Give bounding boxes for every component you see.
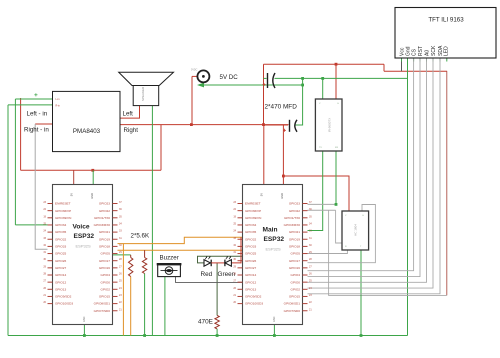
svg-text:SPEAKER: SPEAKER <box>141 86 145 101</box>
junction <box>91 169 94 172</box>
junction <box>335 63 338 66</box>
svg-text:G: G <box>337 103 339 105</box>
wire buzzer right to Main <box>176 277 243 283</box>
speaker <box>119 72 174 105</box>
wire TFT RST to Main <box>308 58 421 277</box>
svg-text:GPIO19: GPIO19 <box>99 237 110 241</box>
wire orange Voice to Main A <box>118 237 243 243</box>
svg-text:Left: Left <box>123 111 134 118</box>
svg-text:GPIO18: GPIO18 <box>99 245 110 249</box>
junction <box>335 203 338 206</box>
svg-text:GPIO8/SD1: GPIO8/SD1 <box>284 302 301 306</box>
svg-text:GPIO7/SD0: GPIO7/SD0 <box>94 309 111 313</box>
svg-text:GPIO5: GPIO5 <box>291 252 301 256</box>
wire cap C1 left stub <box>264 77 267 79</box>
svg-text:5V DC: 5V DC <box>220 74 239 81</box>
svg-text:ESP32S: ESP32S <box>266 247 281 252</box>
svg-text:5V: 5V <box>70 193 74 196</box>
svg-text:GPIO7/SD0: GPIO7/SD0 <box>284 309 301 313</box>
wire red vertical 5V <box>263 64 265 124</box>
svg-text:Buzzer: Buzzer <box>160 254 179 261</box>
wire red loop left riser <box>20 98 22 170</box>
wire Voice 3V3 pin <box>73 170 75 184</box>
svg-text:GPIO27: GPIO27 <box>55 266 66 270</box>
svg-text:GPIO0: GPIO0 <box>101 280 111 284</box>
svg-text:GPIO21: GPIO21 <box>99 230 110 234</box>
junction <box>282 175 285 178</box>
wire to Voice pin <box>15 224 47 226</box>
svg-text:GPIO12: GPIO12 <box>245 280 256 284</box>
label Right out <box>124 127 139 134</box>
microcontroller U5 Voice ESP32 <box>43 185 122 325</box>
wire Main top pin drop A <box>263 125 265 185</box>
wire R2 top stub <box>144 250 146 257</box>
svg-text:GPIO34: GPIO34 <box>55 223 66 227</box>
svg-text:5VDC: 5VDC <box>191 69 198 72</box>
svg-text:GPIO26: GPIO26 <box>245 259 256 263</box>
wire gray U4 riser <box>336 210 342 243</box>
svg-text:5V: 5V <box>260 193 264 196</box>
svg-text:GPIO13: GPIO13 <box>245 287 256 291</box>
wire orange drop to ground <box>122 244 124 336</box>
label Right-in <box>24 127 49 134</box>
capacitor C1 <box>263 73 276 88</box>
wire U3 TX to Main <box>308 151 323 231</box>
svg-text:GPIO33: GPIO33 <box>55 245 66 249</box>
svg-text:GPIO15: GPIO15 <box>99 295 110 299</box>
label 5V DC <box>220 74 239 81</box>
wire U4 top right loop <box>308 205 376 263</box>
label 470E <box>198 319 213 326</box>
wire R1 top stub <box>130 255 132 258</box>
wire gray long link <box>329 210 447 295</box>
label 2*5.6K <box>131 233 150 240</box>
svg-text:EN/RESET: EN/RESET <box>245 202 261 206</box>
label Green <box>218 271 236 278</box>
wire red drop to module U3 pin <box>335 64 337 99</box>
wire R2 bottom <box>144 274 146 336</box>
junction <box>301 84 304 87</box>
svg-text:Main: Main <box>263 227 278 234</box>
wire red drop from TFT LED <box>446 71 448 295</box>
svg-text:GPIO17: GPIO17 <box>99 259 110 263</box>
svg-text:LED: LED <box>444 46 450 56</box>
svg-text:GPIO1/TX0: GPIO1/TX0 <box>284 216 300 220</box>
svg-text:GND: GND <box>273 316 276 322</box>
svg-text:GPIO39/VN: GPIO39/VN <box>245 216 261 220</box>
svg-text:GPIO26: GPIO26 <box>55 259 66 263</box>
svg-text:GPIO16: GPIO16 <box>289 266 300 270</box>
svg-text:R-in: R-in <box>56 105 61 108</box>
svg-text:GPIO10/SD3: GPIO10/SD3 <box>55 302 73 306</box>
wire jack stub <box>192 75 197 77</box>
wire TFT CS to Main <box>308 58 414 271</box>
wire PAM Left out <box>120 106 140 119</box>
wire red rail step <box>383 64 385 71</box>
wire buzzer left drop <box>164 277 166 336</box>
wire 5V red rail to TFT LED <box>384 70 447 72</box>
svg-text:GPIO8/SD1: GPIO8/SD1 <box>94 302 111 306</box>
capacitor C2 <box>283 120 297 132</box>
svg-text:GPIO10/SD3: GPIO10/SD3 <box>245 302 263 306</box>
junction <box>262 123 265 126</box>
wire U4 pin drop to ground <box>360 250 362 336</box>
svg-text:EN/RESET: EN/RESET <box>55 202 71 206</box>
svg-text:ESP32S: ESP32S <box>76 244 91 249</box>
svg-text:GPIO27: GPIO27 <box>245 266 256 270</box>
wire TFT Gnd drop <box>407 58 409 336</box>
wire TFT SDA to Main <box>308 58 441 294</box>
wire TFT SCK to Main <box>308 58 434 288</box>
svg-text:GPIO18: GPIO18 <box>289 245 300 249</box>
svg-text:GPIO15: GPIO15 <box>289 295 300 299</box>
svg-text:GPIO36/VP: GPIO36/VP <box>245 209 261 213</box>
svg-text:A0: A0 <box>424 50 430 56</box>
wire R3 bottom <box>216 329 218 336</box>
wire U3 RX to Main <box>308 203 337 205</box>
wire orange Voice to Main B <box>118 249 243 251</box>
label 2*470 MFD <box>265 104 298 111</box>
wire Main bottom pin <box>273 325 275 336</box>
wire green upper rail <box>275 77 408 79</box>
svg-text:Right - in: Right - in <box>24 127 49 134</box>
display TFT ILI 9163 <box>395 8 496 59</box>
svg-text:RX: RX <box>335 147 339 149</box>
svg-text:GPIO22: GPIO22 <box>99 209 110 213</box>
svg-text:GND: GND <box>90 193 94 199</box>
svg-text:GPIO14: GPIO14 <box>55 273 66 277</box>
junction <box>273 334 276 337</box>
wire Left-in lower <box>8 104 53 106</box>
svg-text:Voice: Voice <box>73 224 90 231</box>
wire U3 RX drop <box>335 151 337 204</box>
svg-text:ESP32: ESP32 <box>74 233 95 240</box>
wire 5V horizontal rail <box>120 124 289 126</box>
label Left-in <box>27 111 48 118</box>
plus mark <box>34 93 37 96</box>
svg-text:Gnd: Gnd <box>405 46 411 56</box>
TFT pin stubs <box>402 58 447 62</box>
svg-text:GND: GND <box>280 193 284 199</box>
svg-text:470E: 470E <box>198 319 213 326</box>
amplifier PMA8403 <box>53 91 121 151</box>
junction <box>321 77 324 80</box>
svg-text:GPIO32: GPIO32 <box>245 237 256 241</box>
wire speaker minus drop <box>151 106 153 336</box>
svg-text:G: G <box>362 215 364 217</box>
wire jack drop <box>191 76 193 124</box>
svg-text:TFT ILI 9163: TFT ILI 9163 <box>428 17 464 24</box>
svg-text:GPIO2: GPIO2 <box>291 287 301 291</box>
svg-text:GPIO25: GPIO25 <box>245 252 256 256</box>
wire R1 feed <box>113 254 131 256</box>
svg-text:GPIO2: GPIO2 <box>101 287 111 291</box>
svg-text:GPIO13: GPIO13 <box>55 287 66 291</box>
wire Green LED riser <box>232 237 241 263</box>
wire green drop to C2 <box>296 78 303 125</box>
wire green drop to module U3 <box>322 78 324 99</box>
wire ground left rail <box>7 105 9 336</box>
wire red to module U4 <box>283 176 349 211</box>
svg-text:GPIO25: GPIO25 <box>55 252 66 256</box>
wire red loop bottom <box>21 169 161 171</box>
wire jack green rail <box>199 84 303 86</box>
svg-text:ESP32: ESP32 <box>264 236 285 243</box>
LED D2 Green <box>225 256 232 266</box>
wire U4 bottom left to Main <box>308 250 348 254</box>
svg-text:GPIO9/SD2: GPIO9/SD2 <box>245 295 262 299</box>
junction <box>301 77 304 80</box>
junction <box>190 123 193 126</box>
svg-text:GPIO1/TX0: GPIO1/TX0 <box>94 216 110 220</box>
svg-text:GPIO35: GPIO35 <box>55 230 66 234</box>
wire Left-in upper <box>15 98 52 100</box>
wire Voice 5V pin drop <box>92 170 94 184</box>
svg-text:GPIO23: GPIO23 <box>99 202 110 206</box>
junction <box>83 334 86 337</box>
svg-text:GPIO4: GPIO4 <box>291 273 301 277</box>
svg-text:GPIO4: GPIO4 <box>101 273 111 277</box>
wire Main top pin drop B <box>282 125 284 185</box>
microcontroller U6 Main ESP32 <box>233 185 312 325</box>
label Left out <box>123 111 134 118</box>
wire left riser <box>14 99 16 225</box>
svg-text:GPIO5: GPIO5 <box>101 252 111 256</box>
arrowhead <box>197 83 204 88</box>
wire Voice bottom pin <box>83 325 85 336</box>
LED D1 Red <box>204 256 225 266</box>
wire Right-in stub <box>35 123 52 125</box>
wire ground bottom rail <box>8 335 408 337</box>
module U3 IR-9600TX <box>315 99 342 151</box>
svg-text:GPIO3/RX0: GPIO3/RX0 <box>284 223 301 227</box>
svg-text:GPIO22: GPIO22 <box>289 209 300 213</box>
wire C2 left stub <box>264 124 289 126</box>
svg-text:Right: Right <box>124 127 139 134</box>
svg-text:GPIO32: GPIO32 <box>55 237 66 241</box>
svg-text:GPIO12: GPIO12 <box>55 280 66 284</box>
svg-text:HC 1804: HC 1804 <box>354 224 358 236</box>
resistor R2 5.6K <box>142 258 146 274</box>
junction <box>143 334 146 337</box>
svg-text:GPIO3/RX0: GPIO3/RX0 <box>94 223 111 227</box>
svg-text:GPIO39/VN: GPIO39/VN <box>55 216 71 220</box>
wire Main to Red LED <box>198 256 243 263</box>
buzzer BZ1 <box>157 263 182 277</box>
wire gray link row <box>308 209 336 211</box>
wire Right-in riser <box>35 124 47 249</box>
svg-text:GPIO9/SD2: GPIO9/SD2 <box>55 295 72 299</box>
resistor R3 470E <box>215 315 219 329</box>
svg-text:GPIO23: GPIO23 <box>289 202 300 206</box>
svg-text:GPIO34: GPIO34 <box>245 223 256 227</box>
svg-text:GPIO35: GPIO35 <box>245 230 256 234</box>
wire TFT Vcc stub <box>401 58 403 71</box>
svg-text:GND: GND <box>83 316 86 322</box>
svg-text:GPIO16: GPIO16 <box>99 266 110 270</box>
svg-text:2*470 MFD: 2*470 MFD <box>265 104 298 111</box>
resistor R1 5.6K <box>129 258 133 277</box>
wire TFT A0 to Main <box>308 58 427 282</box>
svg-text:PMA8403: PMA8403 <box>73 128 101 135</box>
label Buzzer <box>160 254 179 261</box>
svg-text:CS: CS <box>411 48 417 56</box>
svg-text:Red: Red <box>201 271 213 278</box>
wire 5V red top rail <box>264 63 385 65</box>
module U4 HC-1804 <box>342 211 369 250</box>
junction <box>360 334 363 337</box>
svg-text:IR-9600TX: IR-9600TX <box>328 118 332 133</box>
svg-text:GPIO14: GPIO14 <box>245 273 256 277</box>
svg-text:GPIO21: GPIO21 <box>289 230 300 234</box>
wire red loop down <box>160 125 162 171</box>
svg-text:GPIO36/VP: GPIO36/VP <box>55 209 71 213</box>
wire LED junction drop <box>216 263 218 316</box>
svg-text:RST: RST <box>418 46 424 56</box>
svg-text:SCK: SCK <box>431 45 437 56</box>
svg-text:2*5.6K: 2*5.6K <box>131 233 150 240</box>
svg-text:GPIO19: GPIO19 <box>289 237 300 241</box>
junction <box>216 334 219 337</box>
svg-text:L-in: L-in <box>56 98 61 101</box>
svg-text:GPIO0: GPIO0 <box>291 280 301 284</box>
svg-text:GPIO33: GPIO33 <box>245 245 256 249</box>
svg-text:GPIO17: GPIO17 <box>289 259 300 263</box>
label Red <box>201 271 213 278</box>
connector 5V DC jack <box>191 69 209 83</box>
wire orange below R1 <box>130 277 132 336</box>
svg-text:Left - in: Left - in <box>27 111 48 118</box>
